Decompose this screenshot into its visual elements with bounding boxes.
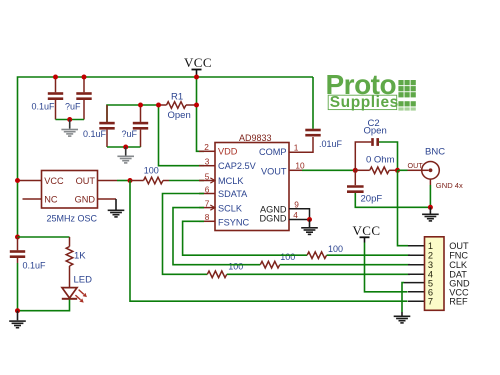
- svg-text:0.1uF: 0.1uF: [32, 102, 56, 112]
- label .01uF: [319, 139, 343, 149]
- label BNC: [425, 146, 445, 157]
- svg-text:2: 2: [204, 142, 209, 152]
- label 100 (CLK): [280, 252, 295, 262]
- VCC power symbol (top): [184, 55, 212, 77]
- pin 6 stub SDATA: [199, 184, 215, 194]
- logo ProtoSupplies: [326, 69, 416, 111]
- node junction cap pair 2 top: [138, 103, 143, 108]
- connector J1 body: [425, 237, 445, 310]
- ground below BNC: [422, 207, 439, 221]
- capacitor C ?uF (first pair right): [76, 77, 91, 120]
- ground bottom left: [9, 311, 26, 329]
- svg-text:SDATA: SDATA: [218, 189, 248, 199]
- IC pin names: [218, 147, 287, 228]
- svg-text:2: 2: [428, 251, 433, 261]
- wire LED cathode to ground rail: [18, 300, 70, 311]
- node junction cap pair 1 on rail: [53, 75, 87, 80]
- pin 7 stub SCLK with clock arrow: [199, 199, 215, 211]
- wire OSC VCC pin to left rail: [18, 180, 42, 182]
- node junction R1 left: [156, 103, 161, 108]
- svg-text:SCLK: SCLK: [218, 203, 243, 213]
- capacitor C 0.1uF (second pair left): [99, 105, 114, 147]
- svg-text:7: 7: [428, 297, 433, 307]
- resistor R1 (Open): [159, 102, 197, 109]
- node junction OSC OUT: [128, 178, 133, 183]
- svg-text:0.1uF: 0.1uF: [23, 261, 47, 271]
- svg-text:VOUT: VOUT: [261, 166, 287, 176]
- label 20pF: [361, 194, 383, 205]
- wire BNC ground drop: [429, 179, 431, 207]
- connector J1 pin numbers 1-7: [428, 241, 433, 306]
- wire VCC to connector pin 6: [365, 243, 408, 292]
- svg-text:GND: GND: [75, 194, 96, 204]
- svg-text:Open: Open: [364, 126, 387, 137]
- svg-text:5: 5: [205, 171, 210, 181]
- wire R1 left junction down to CAP2.5V pin 3: [159, 105, 205, 166]
- IC U1 AD9833 box: [215, 143, 289, 231]
- svg-text:FNC: FNC: [449, 251, 468, 261]
- label 0.1uF (first pair left): [32, 102, 56, 112]
- ground (analog, gray) below cap pair 1: [61, 120, 78, 137]
- label Open (R1): [168, 110, 191, 121]
- svg-text:100: 100: [280, 252, 295, 262]
- svg-text:20pF: 20pF: [361, 194, 383, 205]
- wire connector GND pin 5 to ground: [402, 283, 425, 312]
- svg-text:100: 100: [144, 166, 159, 176]
- label 1K: [74, 251, 86, 262]
- label AD9833: [239, 133, 272, 143]
- svg-text:VCC: VCC: [184, 55, 212, 70]
- svg-text:OUT: OUT: [76, 176, 96, 186]
- wire VCC rail down to R1 right and VDD pin: [197, 77, 205, 151]
- label 100 (MCLK): [144, 166, 159, 176]
- svg-text:3: 3: [205, 157, 210, 167]
- svg-text:?uF: ?uF: [122, 129, 138, 139]
- wire VCC top rail and left rail: [18, 77, 314, 237]
- svg-text:6: 6: [205, 184, 210, 194]
- node junction cap pair 2 bottom: [123, 145, 128, 150]
- wire cap pair 2 bottom: [107, 146, 141, 148]
- svg-text:25MHz OSC: 25MHz OSC: [47, 214, 98, 224]
- svg-text:1K: 1K: [74, 251, 86, 262]
- label LED: [74, 275, 93, 286]
- resistor 0 Ohm: [355, 167, 397, 174]
- svg-text:9: 9: [294, 200, 299, 210]
- wire OUT net down to connector pin 1: [398, 170, 409, 245]
- node junction R1 right: [194, 103, 199, 108]
- capacitor 0.1uF (bottom left): [10, 237, 25, 311]
- pin 1 COMP wire to .01uF: [289, 137, 313, 153]
- VCC power symbol (connector): [353, 223, 381, 243]
- svg-text:100: 100: [228, 262, 243, 272]
- node junction AGND/DGND: [307, 217, 312, 222]
- wire left rail to 1K: [18, 236, 70, 238]
- svg-text:LED: LED: [74, 275, 93, 286]
- capacitor 20pF: [347, 170, 430, 207]
- svg-text:4: 4: [293, 210, 298, 220]
- svg-text:0 Ohm: 0 Ohm: [366, 155, 395, 166]
- capacitor C 0.1uF (first pair left): [48, 77, 63, 120]
- ground below DGND: [301, 220, 318, 236]
- node junction left rail at OSC VCC: [15, 178, 20, 183]
- svg-text:Supplies: Supplies: [330, 94, 399, 111]
- ground below connector: [394, 312, 411, 324]
- svg-text:VCC: VCC: [353, 223, 381, 238]
- svg-text:?uF: ?uF: [65, 102, 81, 112]
- node junction left rail at 1K branch: [15, 235, 20, 240]
- connector J1 stubs: [408, 246, 425, 302]
- svg-text:MCLK: MCLK: [218, 176, 244, 186]
- svg-text:OUT: OUT: [408, 161, 424, 170]
- svg-text:DGND: DGND: [259, 214, 286, 224]
- wire MCLK vertical to REF row: [130, 181, 408, 302]
- label Open (C2): [364, 126, 387, 137]
- pin 10 VOUT wire: [289, 161, 355, 171]
- svg-text:1: 1: [294, 143, 299, 153]
- wire BNC output: [398, 169, 422, 171]
- pin 2 stub VDD: [199, 142, 215, 152]
- pin OSC GND and ground: [98, 199, 125, 218]
- label OUT (BNC pin): [408, 161, 424, 170]
- svg-text:8: 8: [205, 212, 210, 222]
- pin 8 stub FSYNC: [199, 212, 215, 222]
- label 25MHz OSC: [47, 214, 98, 224]
- svg-text:CAP2.5V: CAP2.5V: [218, 161, 257, 171]
- label 100 (FNC): [328, 244, 343, 254]
- wire cap pair 1 bottom: [56, 119, 85, 121]
- svg-text:REF: REF: [449, 297, 468, 307]
- svg-text:GND 4x: GND 4x: [436, 181, 463, 190]
- connector J1 pin labels: [449, 241, 470, 306]
- capacitor C ?uF (second pair right): [133, 105, 148, 147]
- svg-text:3: 3: [428, 260, 433, 270]
- diode LED: [62, 288, 87, 303]
- pins 9/4 AGND DGND wires: [289, 200, 310, 221]
- label C2: [368, 118, 380, 129]
- label 100 (DAT): [228, 262, 243, 272]
- label 0 Ohm: [366, 155, 395, 166]
- pin NC stub: [23, 198, 42, 200]
- svg-text:AD9833: AD9833: [239, 133, 272, 143]
- svg-text:NC: NC: [44, 194, 58, 204]
- svg-text:0.1uF: 0.1uF: [83, 129, 107, 139]
- label R1: [171, 91, 183, 102]
- ground (analog, gray) below cap pair 2: [117, 147, 134, 164]
- node junction 0 Ohm right: [395, 168, 400, 173]
- svg-text:BNC: BNC: [425, 146, 445, 157]
- wire 100 to MCLK pin 5: [169, 180, 204, 182]
- node junction bottom left ground: [15, 308, 20, 313]
- svg-text:7: 7: [205, 199, 210, 209]
- resistor 1K (vertical): [66, 237, 73, 287]
- svg-text:CLK: CLK: [449, 260, 468, 270]
- capacitor C2 Open (bypass over 0 Ohm): [355, 138, 397, 169]
- label 0.1uF (bottom left): [23, 261, 47, 271]
- label 0.1uF (second pair left): [83, 129, 107, 139]
- capacitor .01uF: [305, 77, 320, 135]
- svg-text:FSYNC: FSYNC: [218, 217, 250, 227]
- wire OSC OUT pin: [98, 180, 131, 182]
- svg-text:.01uF: .01uF: [319, 139, 343, 149]
- node junction cap pair 1 bottom: [67, 117, 72, 122]
- label ?uF (first pair right): [65, 102, 81, 112]
- svg-text:100: 100: [328, 244, 343, 254]
- oscillator box 25MHz OSC: [42, 171, 98, 209]
- wire cap pair 2 top to R1 left junction: [107, 105, 159, 122]
- node junction BNC ground: [428, 205, 433, 210]
- svg-text:VCC: VCC: [44, 176, 64, 186]
- wire FSYNC to FNC with resistor 100: [183, 221, 410, 258]
- svg-text:R1: R1: [171, 91, 183, 102]
- svg-text:Open: Open: [168, 110, 191, 121]
- wire SCLK to CLK with resistor 100: [173, 208, 410, 268]
- pin 3 stub CAP2.5V: [199, 157, 215, 167]
- pin 5 stub MCLK with clock arrow: [199, 171, 215, 183]
- resistor 100 (MCLK): [130, 177, 169, 184]
- wire SDATA to DAT with resistor 100: [163, 194, 411, 278]
- node junction VOUT net: [353, 168, 358, 173]
- node junction VCC rail: [194, 75, 199, 80]
- connector BNC: [421, 162, 439, 180]
- svg-text:VDD: VDD: [218, 147, 238, 157]
- label ?uF (second pair right): [122, 129, 138, 139]
- label GND 4x: [436, 181, 463, 190]
- svg-text:10: 10: [295, 161, 305, 171]
- svg-text:COMP: COMP: [259, 147, 287, 157]
